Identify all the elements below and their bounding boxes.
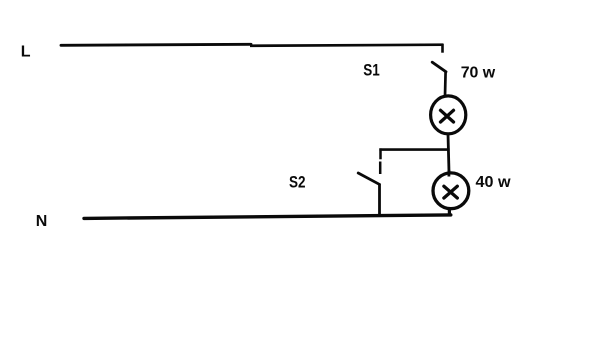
svg-text:S2: S2 — [289, 172, 306, 191]
svg-text:40 w: 40 w — [476, 174, 512, 191]
svg-text:N: N — [36, 213, 48, 230]
svg-text:70 w: 70 w — [461, 65, 496, 82]
svg-text:S1: S1 — [363, 61, 380, 80]
svg-text:L: L — [21, 44, 31, 61]
